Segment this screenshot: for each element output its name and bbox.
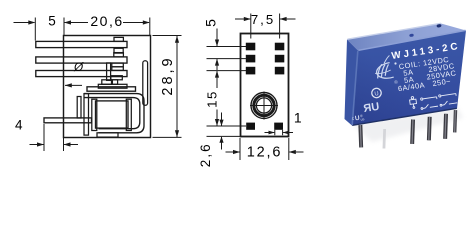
top face vent hole 2 bbox=[409, 33, 414, 37]
arrowhead 2,6 pointing down bbox=[219, 120, 223, 126]
ext line body bottom extended bbox=[207, 135, 241, 137]
mounting boss thick ring bbox=[254, 95, 274, 115]
ext line row1 bbox=[207, 46, 247, 48]
arrowhead 15 pointing up at row3 bbox=[215, 71, 219, 78]
pin pad bottom left bbox=[246, 123, 255, 130]
relay pin 2 (faint background) bbox=[383, 129, 386, 149]
arrowhead 2,6 pointing up bbox=[219, 136, 223, 142]
boss crosshair vertical bbox=[263, 92, 265, 120]
dim 2,6 arrow tail above bbox=[221, 113, 223, 126]
front face printed text block (rotated with face) bbox=[391, 41, 469, 113]
dim 5 left arrow tail bbox=[14, 22, 35, 24]
arrowhead 7,5 left pointing right bbox=[244, 17, 251, 21]
Ø leader arrow line bbox=[65, 84, 82, 86]
printed contact schematic bbox=[409, 90, 457, 111]
photo shadow under relay bbox=[352, 107, 463, 142]
svg-text:ЯU: ЯU bbox=[363, 101, 381, 115]
armature plate lower (long) bbox=[87, 87, 136, 91]
dim 28,9 line bbox=[176, 36, 178, 137]
pin bar 2 bbox=[36, 57, 127, 63]
dim 20,6 left arrow tail / 5 right arrow bbox=[65, 22, 88, 24]
arrowhead 15 pointing down at bottom pin row bbox=[215, 119, 219, 126]
relay top face bbox=[347, 24, 466, 51]
top face back edge highlight bbox=[348, 23, 442, 39]
relay pin 6 (far right) bbox=[453, 110, 457, 133]
moving contact spring strip bbox=[107, 63, 111, 81]
certification mark circled TUV bbox=[371, 88, 382, 99]
arrowhead 7,5 right pointing left bbox=[280, 17, 287, 21]
svg-text:15: 15 bbox=[204, 90, 219, 108]
contact block above bar1 bbox=[114, 37, 123, 41]
logo star bbox=[394, 62, 396, 64]
dim 2,6 arrow tail below bbox=[221, 137, 223, 150]
bottom pin (4mm) bbox=[44, 118, 92, 123]
coil right flange bbox=[126, 99, 131, 130]
arrowhead dim28,9 pointing up bbox=[175, 36, 179, 43]
mounting boss outer circle bbox=[251, 93, 277, 119]
dim 12,6 left arrow tail bbox=[226, 151, 240, 153]
front face bottom edge dark line bbox=[352, 108, 457, 125]
coil body bbox=[96, 101, 129, 128]
dim 1 right arrow tail bbox=[283, 132, 293, 134]
dim 20,6 right arrow tail bbox=[123, 22, 149, 24]
dim 28,9 top ext line bbox=[153, 35, 182, 37]
dim 7,5 left arrow tail bbox=[235, 18, 250, 20]
arrowhead dim4 pointing left bbox=[64, 142, 71, 146]
svg-text:2,6: 2,6 bbox=[198, 142, 213, 167]
dim 15 line upper part bbox=[216, 71, 218, 88]
dim 12,6 left ext line bbox=[239, 138, 241, 160]
relay pin 5 bbox=[443, 114, 448, 139]
dim 4 left arrow tail bbox=[30, 144, 44, 146]
arrowhead 1 pointing right bbox=[269, 131, 275, 135]
left drawing dimensions bbox=[14, 18, 182, 152]
arrowhead dim20,6 pointing right bbox=[143, 20, 150, 24]
relay front face bbox=[352, 31, 466, 126]
dim 7,5 right ext line bbox=[279, 14, 281, 39]
extension line at pin tips (x=35) bbox=[34, 18, 36, 41]
pin pad row1 left bbox=[246, 43, 256, 51]
dim 1 ticks at pin edges bbox=[274, 130, 276, 135]
arrowhead 12,6 pointing right bbox=[233, 150, 240, 154]
front face left edge highlight bbox=[352, 51, 358, 125]
slot in case near right wall bbox=[143, 61, 148, 106]
dim 1 left arrow tail bbox=[265, 132, 275, 134]
arrowhead dim4 pointing right bbox=[37, 142, 44, 146]
armature pedestal bbox=[102, 80, 112, 85]
svg-text:4: 4 bbox=[15, 118, 23, 133]
svg-text:Ø: Ø bbox=[73, 60, 84, 74]
coil bottom foot bbox=[97, 133, 118, 137]
svg-text:20,6: 20,6 bbox=[90, 13, 123, 29]
svg-text:28,9: 28,9 bbox=[160, 55, 176, 95]
extension line at body back (x=149.8) bbox=[149, 18, 151, 36]
mounting boss inner circle bbox=[256, 98, 271, 113]
relay left face bbox=[345, 40, 359, 126]
spring-to-plate connector bbox=[112, 80, 117, 85]
dim 12,6 right ext line bbox=[288, 138, 290, 160]
yoke outer profile bbox=[84, 94, 144, 133]
yoke inner profile bbox=[84, 98, 140, 129]
dim 7,5 left ext line bbox=[250, 14, 252, 39]
certification mark cULus bbox=[351, 114, 365, 123]
boss crosshair horizontal bbox=[250, 105, 278, 107]
relay body outline (side view) bbox=[64, 36, 151, 138]
relay pin 4 bbox=[427, 117, 432, 141]
contact block below bar3 bbox=[111, 76, 123, 80]
dim 7,5 right arrow tail bbox=[280, 18, 295, 20]
arrowhead Ø leader pointing left bbox=[65, 83, 72, 87]
relay body outline (bottom view) bbox=[241, 34, 289, 137]
dim 15 line lower part bbox=[216, 110, 218, 126]
arrowhead dim20,6 pointing left bbox=[64, 20, 71, 24]
svg-text:7,5: 7,5 bbox=[251, 12, 275, 27]
dim 4 right arrow tail bbox=[64, 144, 78, 146]
armature plate upper bbox=[98, 84, 127, 88]
contact block above bar3 bbox=[112, 67, 124, 71]
middle drawing dimensions bbox=[207, 14, 304, 161]
extension line at body front (x=64) bbox=[63, 18, 65, 36]
coil lead wire to bottom pin bbox=[77, 97, 81, 119]
dim 5 arrow tail below row2 bbox=[216, 59, 218, 70]
coil left flange bbox=[92, 99, 97, 130]
svg-text:1: 1 bbox=[294, 109, 302, 125]
pin pad row3 right bbox=[275, 67, 285, 75]
ext line row3 bbox=[207, 70, 247, 72]
dim 28,9 bottom ext line bbox=[153, 136, 182, 138]
brand logo script oval bbox=[372, 55, 394, 80]
arrowhead 12,6 pointing left bbox=[289, 150, 296, 154]
dim 4 right ext line bbox=[63, 138, 65, 151]
pin bar 1 bbox=[36, 41, 127, 47]
svg-text:5: 5 bbox=[202, 19, 218, 27]
ext line row2 bbox=[207, 58, 247, 60]
arrowhead dim5 pointing right bbox=[28, 20, 35, 24]
dim 4 left ext line bbox=[43, 124, 45, 151]
relay pin 3 bbox=[410, 119, 415, 144]
relay pin 1 (left) bbox=[358, 125, 363, 148]
contact block below bar1 bbox=[114, 48, 123, 53]
arrowhead 1 pointing left bbox=[283, 131, 289, 135]
pin pad row3 left bbox=[246, 67, 256, 75]
front face corner shading bbox=[352, 31, 466, 126]
dim 12,6 right arrow tail bbox=[289, 151, 303, 153]
pin pad row2 right bbox=[275, 55, 285, 63]
arrowhead 5 pointing up at row2 bbox=[215, 59, 219, 66]
contact block below bar2 bbox=[112, 63, 124, 67]
pin pad row2 left bbox=[246, 55, 256, 63]
pin bar 3 bbox=[36, 71, 127, 77]
contact block above bar2 bbox=[114, 53, 124, 57]
svg-text:5: 5 bbox=[48, 14, 56, 29]
arrowhead dim28,9 pointing down bbox=[175, 130, 179, 137]
top face vent hole 1 bbox=[436, 24, 441, 28]
pin pad row1 right bbox=[275, 43, 285, 51]
ext line bottom pin row bbox=[207, 125, 247, 127]
front face top edge light line bbox=[359, 30, 466, 50]
dim 5 arrow tail above row1 bbox=[216, 29, 218, 47]
yoke left leg bbox=[84, 94, 89, 136]
pin pad bottom right bbox=[274, 123, 283, 130]
arrowhead 5 pointing down at row1 bbox=[215, 40, 219, 47]
svg-text:U: U bbox=[374, 91, 379, 98]
svg-text:12,6: 12,6 bbox=[247, 145, 282, 161]
